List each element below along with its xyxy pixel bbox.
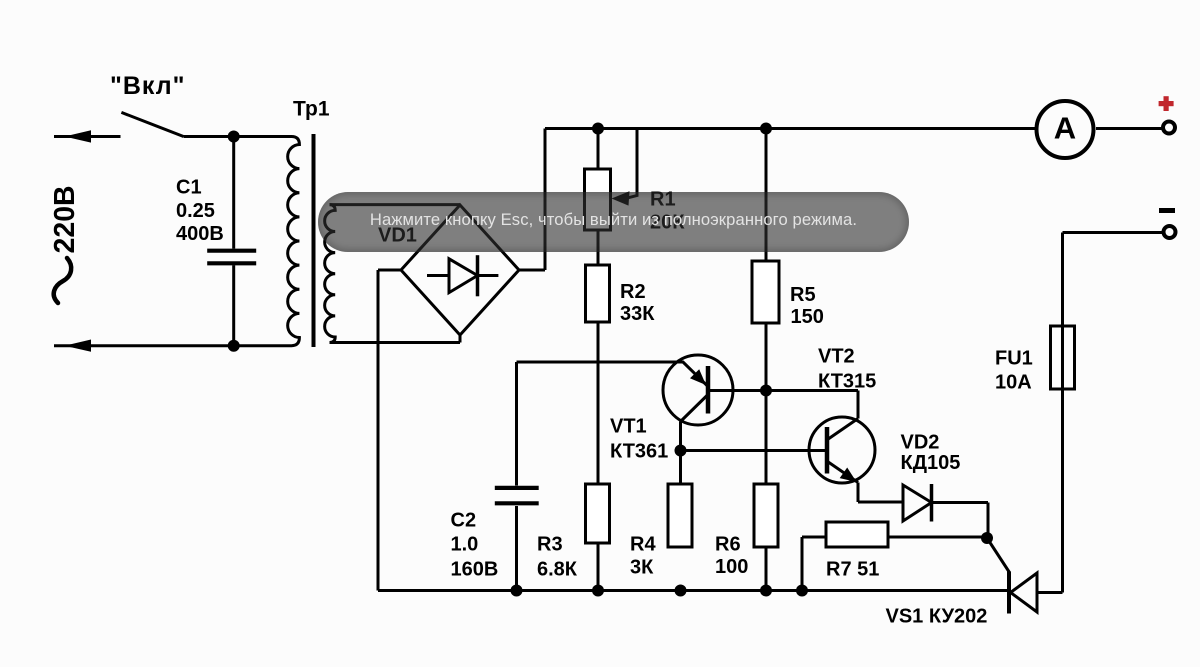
svg-text:VT1: VT1 [610, 416, 647, 438]
svg-text:10А: 10А [995, 372, 1032, 394]
svg-text:FU1: FU1 [995, 348, 1033, 370]
svg-text:100: 100 [715, 556, 748, 578]
svg-text:A: A [1054, 111, 1076, 146]
svg-text:C1: C1 [176, 177, 202, 199]
svg-text:КТ315: КТ315 [818, 371, 876, 393]
svg-text:КД105: КД105 [901, 452, 961, 474]
svg-text:33К: 33К [620, 303, 655, 325]
svg-text:1.0: 1.0 [451, 534, 479, 556]
svg-text:КТ361: КТ361 [610, 441, 668, 463]
svg-text:160В: 160В [451, 559, 499, 581]
svg-text:"Вкл": "Вкл" [110, 72, 185, 100]
svg-text:R3: R3 [537, 534, 563, 556]
svg-text:R2: R2 [620, 281, 646, 303]
svg-text:0.25: 0.25 [176, 200, 215, 222]
svg-text:R7 51: R7 51 [826, 559, 879, 581]
svg-text:150: 150 [791, 306, 824, 328]
svg-text:Тр1: Тр1 [293, 98, 330, 121]
svg-text:R5: R5 [790, 284, 816, 306]
svg-text:VT2: VT2 [818, 346, 855, 368]
svg-text:400В: 400В [176, 223, 224, 245]
svg-text:R6: R6 [715, 534, 741, 556]
svg-text:C2: C2 [451, 510, 477, 532]
svg-text:VD2: VD2 [901, 432, 940, 454]
svg-text:R4: R4 [630, 534, 656, 556]
svg-text:6.8К: 6.8К [537, 559, 578, 581]
svg-text:3К: 3К [630, 557, 654, 579]
svg-text:VS1 КУ202: VS1 КУ202 [886, 606, 988, 628]
svg-text:220В: 220В [49, 185, 81, 253]
